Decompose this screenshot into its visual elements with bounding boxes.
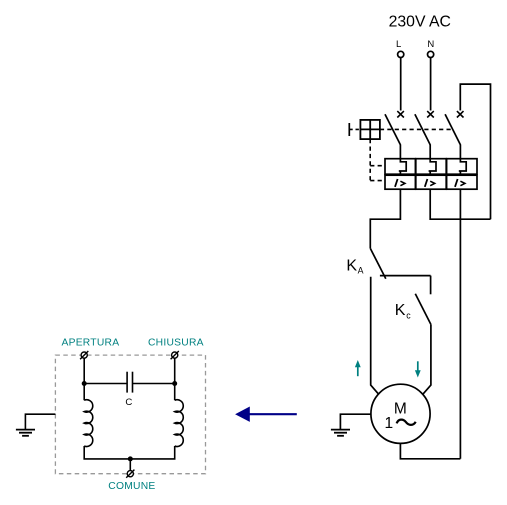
winding apertura (left coil) bbox=[84, 400, 93, 447]
wire pole 3 out down bbox=[459, 189, 461, 459]
actuator link dash to square bbox=[349, 128, 360, 130]
overcurrent trip box pole 2 bbox=[416, 175, 446, 189]
mechanical link dashed horizontal to levers bbox=[380, 128, 452, 130]
breaker contact cross pole 3 bbox=[457, 111, 464, 117]
mechanical link dash stub to thermal row bbox=[370, 165, 385, 167]
actuator square bbox=[360, 120, 380, 139]
wire left coil to bottom bbox=[84, 446, 175, 459]
breaker lever pole 1 bbox=[385, 114, 400, 145]
terminal chiusura bbox=[171, 351, 179, 359]
breaker lever pole 2 bbox=[415, 114, 430, 145]
svg-text:c: c bbox=[406, 310, 411, 320]
svg-text:230V AC: 230V AC bbox=[389, 14, 451, 31]
wire lever 2 to thermal box bbox=[429, 145, 431, 159]
contact KC lever bbox=[415, 294, 431, 324]
thermal element box pole 2 bbox=[416, 159, 446, 175]
terminal comune bbox=[126, 470, 134, 478]
thermal heater hook pole 1 bbox=[399, 159, 406, 175]
wire N down to breaker pole 2 bbox=[430, 58, 432, 111]
svg-text:CHIUSURA: CHIUSURA bbox=[148, 337, 204, 348]
blue arrow motor to windings bbox=[235, 407, 297, 422]
wire apertura terminal down bbox=[83, 358, 85, 400]
thermal element box pole 3 bbox=[447, 159, 477, 175]
terminal L bbox=[398, 51, 404, 57]
svg-text:K: K bbox=[395, 302, 406, 319]
junction dot apertura bbox=[82, 381, 87, 386]
manual actuator handle tick bbox=[348, 123, 350, 136]
actuator square cross vertical bbox=[369, 120, 371, 139]
wire motor left to ground bbox=[340, 414, 371, 429]
breaker contact cross pole 2 bbox=[427, 111, 434, 117]
capacitor C plates bbox=[126, 372, 128, 393]
ground wire left bbox=[25, 414, 55, 429]
wire KC lower to motor bbox=[423, 324, 431, 394]
svg-text:A: A bbox=[358, 266, 364, 276]
overcurrent trip box pole 1 bbox=[385, 175, 415, 189]
wire lever 3 to thermal box bbox=[459, 145, 461, 159]
thermal element box pole 1 bbox=[385, 159, 415, 175]
svg-text:COMUNE: COMUNE bbox=[108, 481, 155, 492]
svg-text:K: K bbox=[346, 257, 357, 274]
junction dot chiusura bbox=[172, 381, 177, 386]
wire KA lower to motor bbox=[371, 277, 379, 394]
ground symbol right bbox=[331, 430, 350, 436]
svg-text:L: L bbox=[396, 39, 401, 50]
wire chiusura terminal down bbox=[174, 358, 176, 400]
dashed enclosure box bbox=[55, 355, 205, 474]
sine symbol bbox=[397, 420, 416, 425]
thermal heater hook pole 2 bbox=[429, 159, 436, 175]
svg-text:APERTURA: APERTURA bbox=[61, 337, 119, 348]
wire KC upper terminal bbox=[430, 276, 432, 295]
overcurrent trip box pole 3 bbox=[447, 175, 477, 189]
mechanical link dashed vertical bbox=[369, 139, 371, 181]
junction dot comune bbox=[128, 456, 133, 461]
contact KA lever bbox=[370, 248, 386, 278]
terminal apertura bbox=[80, 351, 88, 359]
wire KA branch to KC bbox=[380, 275, 431, 277]
svg-text:M: M bbox=[394, 401, 407, 418]
wire comune stub bbox=[129, 459, 131, 471]
terminal N bbox=[428, 51, 434, 57]
ground symbol left bbox=[16, 430, 35, 436]
winding chiusura (right coil) bbox=[175, 400, 184, 447]
breaker contact cross pole 1 bbox=[397, 111, 404, 117]
label I> pole 3 bbox=[455, 179, 465, 187]
svg-text:1: 1 bbox=[384, 415, 393, 432]
breaker lever pole 3 bbox=[445, 114, 460, 145]
label I> pole 1 bbox=[395, 179, 405, 187]
svg-text:N: N bbox=[427, 39, 434, 50]
wire L down to breaker pole 1 bbox=[400, 58, 402, 111]
wire lever 1 to thermal box bbox=[399, 145, 401, 159]
wire pole 2 out to right bus bbox=[430, 189, 490, 219]
mechanical link dash stub to trip row bbox=[370, 180, 385, 182]
capacitor C leads bbox=[84, 383, 127, 385]
arrow down (chiusura direction) bbox=[415, 361, 421, 377]
wire motor bottom to pole 3 wire bbox=[400, 443, 460, 458]
svg-text:C: C bbox=[125, 397, 132, 408]
arrow up (apertura direction) bbox=[355, 360, 361, 376]
wire pole 1 out jog left bbox=[370, 189, 400, 248]
label I> pole 2 bbox=[425, 179, 435, 187]
thermal heater hook pole 3 bbox=[459, 159, 466, 175]
motor circle M1~ bbox=[371, 384, 430, 443]
wire pole 3 top loop from right bus bbox=[460, 84, 490, 219]
actuator square cross horizontal bbox=[360, 128, 380, 130]
